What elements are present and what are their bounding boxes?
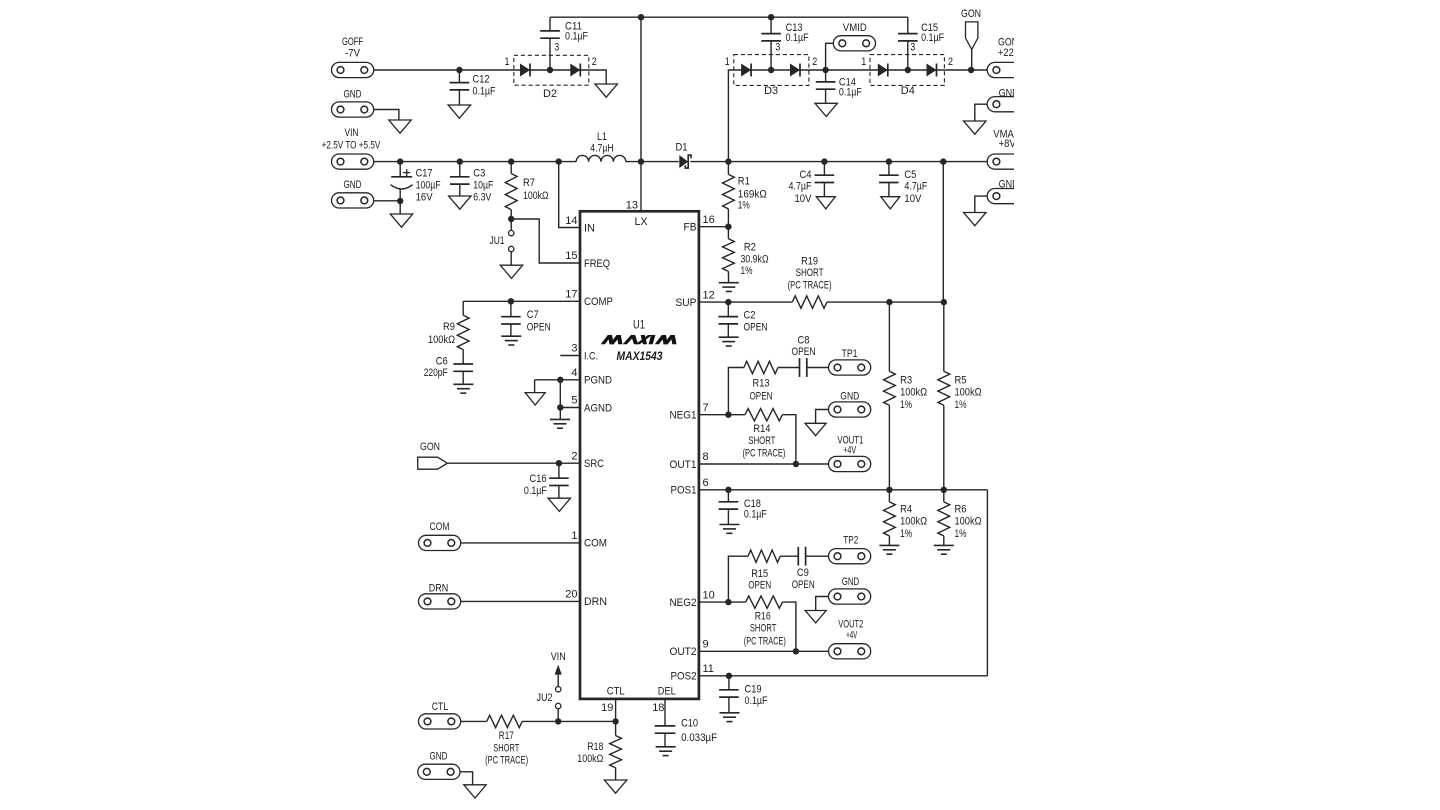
svg-text:14: 14 — [565, 215, 577, 227]
svg-text:D2: D2 — [543, 88, 557, 100]
svg-text:(PC TRACE): (PC TRACE) — [744, 635, 786, 647]
svg-text:GND: GND — [344, 179, 362, 191]
svg-text:GND: GND — [840, 390, 859, 402]
wire COMP pin — [463, 300, 580, 302]
ground right2 — [964, 213, 986, 226]
node D2 center junction — [547, 67, 553, 73]
svg-text:-7V: -7V — [345, 48, 361, 60]
svg-text:D3: D3 — [764, 85, 778, 97]
wire D3 pin1 drop to VMAIN rail — [728, 70, 733, 162]
node POS1 at R4 — [886, 487, 892, 493]
svg-text:4: 4 — [571, 367, 577, 379]
svg-text:3: 3 — [910, 42, 915, 54]
svg-text:CTL: CTL — [607, 685, 625, 697]
svg-text:R16: R16 — [755, 610, 771, 622]
op-amp U1 MAX1543 IC body — [580, 211, 699, 699]
svg-text:1%: 1% — [741, 265, 753, 277]
ground below C5 — [881, 197, 900, 209]
node AGND junction — [557, 404, 563, 410]
svg-text:OPEN: OPEN — [750, 390, 773, 402]
wire DRN pin — [461, 600, 580, 602]
svg-text:OPEN: OPEN — [744, 322, 768, 334]
svg-text:+4V: +4V — [843, 445, 856, 457]
wire CTL pad to R17 — [461, 720, 487, 722]
wire R14 to OUT1 — [782, 415, 796, 464]
node C12 junction — [456, 67, 462, 73]
ground below C16 — [548, 498, 570, 511]
node R7 bottom junction — [508, 216, 514, 222]
ground below C7 — [501, 335, 521, 337]
ground below C18 — [719, 524, 739, 526]
pad GON +22V (cut) — [987, 62, 1014, 77]
svg-text:+8V: +8V — [999, 138, 1017, 150]
wire POS1 pin to right column — [699, 489, 988, 491]
wire LX vertical to top rail and pin 13 — [640, 17, 642, 161]
svg-text:100µF: 100µF — [416, 180, 441, 192]
wire D2 internal — [514, 69, 589, 71]
svg-text:1: 1 — [505, 56, 510, 68]
capacitor C16 — [558, 463, 560, 478]
svg-text:R9: R9 — [443, 321, 455, 333]
wire C9 to TP2 — [806, 555, 829, 557]
jumper JU1 — [510, 219, 512, 230]
node NEG2 junction — [725, 599, 731, 605]
svg-text:R1: R1 — [738, 175, 750, 187]
net flag GON top — [966, 22, 978, 50]
svg-text:0.1µF: 0.1µF — [565, 31, 588, 43]
svg-text:10: 10 — [703, 589, 715, 601]
svg-text:100kΩ: 100kΩ — [955, 516, 982, 528]
pad VMID — [826, 43, 834, 70]
svg-text:SRC: SRC — [584, 458, 604, 470]
svg-text:0.033µF: 0.033µF — [681, 732, 717, 744]
capacitor C9 open — [797, 547, 799, 566]
svg-text:PGND: PGND — [584, 375, 612, 387]
wire GND pad to ground — [374, 110, 399, 121]
svg-text:5: 5 — [571, 395, 577, 407]
svg-text:12: 12 — [703, 289, 715, 301]
ground bottom-left — [464, 785, 486, 798]
wire D4 internal — [870, 69, 944, 71]
svg-text:0.1µF: 0.1µF — [745, 695, 768, 707]
svg-text:3: 3 — [571, 343, 577, 355]
svg-text:C8: C8 — [798, 335, 810, 347]
svg-text:R13: R13 — [753, 377, 770, 389]
pad GND right2 (cut) — [987, 189, 1014, 204]
resistor R18 — [615, 721, 617, 735]
svg-text:OUT1: OUT1 — [670, 459, 697, 471]
svg-text:FB: FB — [684, 222, 697, 234]
ground mid2 — [805, 611, 826, 623]
resistor R15 open — [748, 550, 780, 562]
ground right1 — [964, 121, 986, 134]
pin 3 I.C. stub — [560, 355, 580, 357]
svg-text:COM: COM — [584, 538, 607, 550]
ground below C3 — [449, 196, 471, 209]
wire R5 column upper — [943, 302, 945, 371]
wire GND bottom-left to ground — [460, 772, 473, 785]
svg-text:VIN: VIN — [345, 127, 359, 139]
resistor R14 short — [745, 409, 782, 421]
diode D4 right half — [927, 64, 937, 77]
wire PGND to AGND — [559, 380, 561, 408]
net arrow VIN — [557, 671, 559, 687]
svg-text:10V: 10V — [904, 193, 922, 205]
ground top-left — [389, 120, 411, 133]
capacitor C3 — [459, 162, 461, 177]
diode D2 left half — [520, 64, 530, 77]
svg-text:SUP: SUP — [676, 297, 697, 309]
node POS1 at R6 — [941, 487, 947, 493]
pad VOUT2 — [829, 644, 871, 659]
svg-text:L1: L1 — [597, 131, 607, 143]
svg-text:2: 2 — [948, 56, 953, 68]
wire LX top rail — [550, 16, 908, 18]
wire POS2 pin to right vertical — [699, 675, 988, 677]
svg-text:VMID: VMID — [843, 22, 867, 34]
wire NEG2 up to R15 — [728, 556, 748, 602]
pad VMAIN +8V (cut) — [987, 154, 1014, 169]
node top rail at C13 — [768, 14, 774, 20]
svg-text:C9: C9 — [797, 567, 809, 579]
svg-text:100kΩ: 100kΩ — [900, 387, 927, 399]
resistor R13 open — [744, 361, 778, 373]
svg-text:6: 6 — [703, 477, 709, 489]
ground below R6 — [934, 544, 954, 546]
node NEG1 junction — [725, 412, 731, 418]
svg-text:17: 17 — [565, 289, 577, 301]
capacitor C2 — [727, 302, 729, 317]
ground below R2 — [719, 282, 739, 284]
svg-text:SHORT: SHORT — [796, 267, 824, 279]
svg-text:100kΩ: 100kΩ — [577, 753, 603, 765]
node VMAIN at C4 — [821, 158, 827, 164]
svg-text:10V: 10V — [795, 193, 813, 205]
svg-text:DEL: DEL — [658, 685, 676, 697]
svg-text:1: 1 — [861, 56, 866, 68]
wire VIN rail — [374, 161, 577, 163]
svg-text:3: 3 — [775, 42, 780, 54]
svg-text:6.3V: 6.3V — [473, 192, 492, 204]
svg-text:C19: C19 — [745, 683, 762, 695]
svg-text:4.7µH: 4.7µH — [590, 143, 614, 155]
svg-text:D1: D1 — [676, 142, 688, 154]
wire D1 to VMAIN rail — [690, 161, 987, 163]
node SRC junction C16 — [556, 460, 562, 466]
svg-text:TP2: TP2 — [843, 535, 858, 547]
ground below C6 — [453, 383, 473, 385]
svg-text:OPEN: OPEN — [792, 579, 815, 591]
wire GND mid2 to ground — [816, 597, 829, 611]
net flag GON left arrow — [418, 457, 448, 469]
svg-text:13: 13 — [626, 200, 638, 212]
pad GND mid2 — [829, 589, 871, 604]
svg-text:DRN: DRN — [584, 596, 607, 608]
node POS1 at C18 — [725, 487, 731, 493]
svg-text:U1: U1 — [633, 317, 645, 331]
wire FB pin to R1/R2 — [699, 226, 729, 228]
svg-text:AGND: AGND — [584, 402, 612, 414]
wire GND right1 to ground — [975, 104, 987, 121]
svg-text:GON: GON — [420, 441, 440, 453]
svg-text:R19: R19 — [801, 256, 818, 268]
diode D3 left half — [741, 64, 751, 77]
wire DEL pin drop — [664, 699, 666, 726]
wire SUP pin to R19 — [699, 301, 792, 303]
wire GND mid1 to ground — [816, 410, 829, 424]
svg-text:7: 7 — [703, 402, 709, 414]
svg-text:8: 8 — [703, 451, 709, 463]
svg-text:1%: 1% — [955, 399, 967, 411]
wire CTL pin drop — [615, 699, 617, 722]
wire R7 bottom to FREQ pin — [511, 219, 580, 263]
diode pack D4 dashed box — [870, 55, 944, 86]
resistor R7 — [510, 162, 512, 174]
wire D3 internal — [734, 69, 809, 71]
wire AGND pin — [560, 407, 580, 409]
capacitor C4 — [823, 162, 825, 176]
pad VOUT1 — [829, 456, 871, 471]
svg-text:COMP: COMP — [584, 296, 613, 308]
ground mid1 — [805, 423, 826, 435]
wire R15 to C9 — [780, 555, 798, 557]
svg-text:NEG2: NEG2 — [670, 597, 697, 609]
svg-text:OPEN: OPEN — [527, 321, 551, 333]
svg-text:GOFF: GOFF — [342, 36, 363, 48]
pad GND bottom-left — [418, 764, 460, 779]
ground below C12 — [448, 105, 470, 118]
node R7 tap — [508, 158, 514, 164]
resistor R6 — [943, 490, 945, 502]
node FB junction — [725, 224, 731, 230]
svg-text:+4V: +4V — [846, 629, 857, 641]
svg-text:1%: 1% — [900, 528, 912, 540]
diode pack D2 dashed box — [514, 55, 589, 85]
svg-text:2: 2 — [592, 56, 597, 68]
wire AGND to ground — [559, 408, 561, 420]
svg-text:30.9kΩ: 30.9kΩ — [741, 253, 769, 265]
svg-text:0.1µF: 0.1µF — [473, 85, 496, 97]
svg-text:(PC TRACE): (PC TRACE) — [485, 754, 528, 766]
svg-text:SHORT: SHORT — [748, 435, 775, 447]
node C3 tap — [457, 158, 463, 164]
svg-text:9: 9 — [703, 639, 709, 651]
resistor R5 — [938, 371, 950, 405]
capacitor C12 — [458, 70, 460, 83]
resistor R3 — [884, 371, 896, 405]
capacitor C18 — [727, 490, 729, 502]
svg-text:SHORT: SHORT — [750, 623, 777, 635]
svg-text:LX: LX — [635, 216, 649, 228]
resistor R16 short — [746, 596, 783, 608]
svg-text:R18: R18 — [587, 741, 603, 753]
svg-text:POS1: POS1 — [671, 485, 697, 497]
svg-text:2: 2 — [812, 56, 817, 68]
node SUP at R3 — [886, 299, 892, 305]
ground PGND — [525, 393, 545, 405]
node PGND junction — [557, 377, 563, 383]
svg-text:(PC TRACE): (PC TRACE) — [742, 448, 785, 460]
svg-text:1: 1 — [725, 56, 730, 68]
svg-text:FREQ: FREQ — [584, 258, 610, 270]
ground below C14 — [815, 103, 837, 116]
pad TP1 — [829, 360, 871, 375]
node VMAIN at R1/D3 column — [725, 158, 731, 164]
node D3 center junction — [768, 67, 774, 73]
pad CTL — [419, 714, 461, 729]
resistor R19 short — [792, 296, 827, 308]
node D4 center junction — [905, 67, 911, 73]
ground below C4 — [816, 197, 835, 209]
pad VIN — [332, 154, 374, 169]
node CTL pin junction — [612, 718, 618, 724]
node C14/VMID junction — [822, 67, 828, 73]
ground below C17 — [390, 214, 412, 227]
svg-text:0.1µF: 0.1µF — [744, 509, 767, 521]
svg-text:MAX1543: MAX1543 — [617, 351, 664, 363]
svg-text:0.1µF: 0.1µF — [786, 32, 809, 44]
node LX junction — [638, 158, 644, 164]
svg-text:TP1: TP1 — [842, 348, 858, 360]
svg-text:I.C.: I.C. — [584, 350, 598, 362]
svg-text:R7: R7 — [523, 177, 535, 189]
wire GOFF pad to D2 — [374, 69, 514, 71]
wire GND right2 to ground — [975, 196, 987, 212]
wire GON arrow to SRC pin — [447, 462, 580, 464]
wire R3 column upper — [888, 302, 890, 371]
svg-text:VIN: VIN — [551, 651, 566, 663]
svg-text:R14: R14 — [753, 423, 770, 435]
svg-text:R15: R15 — [751, 568, 768, 580]
capacitor C8 open — [799, 358, 801, 377]
svg-text:C17: C17 — [416, 168, 433, 180]
wire D4 pin2 to GON pad — [944, 69, 987, 71]
svg-text:R4: R4 — [900, 503, 912, 515]
svg-text:R3: R3 — [900, 374, 912, 386]
svg-text:16V: 16V — [416, 192, 434, 204]
svg-text:15: 15 — [565, 250, 577, 262]
svg-text:COM: COM — [430, 521, 450, 533]
ground below R18 — [604, 780, 626, 793]
svg-text:POS2: POS2 — [671, 671, 697, 683]
ground below JU1 — [500, 265, 522, 278]
node OUT1 junction — [793, 461, 799, 467]
svg-text:C10: C10 — [681, 718, 698, 730]
node OUT2 junction — [793, 648, 799, 654]
svg-text:1: 1 — [571, 530, 577, 542]
svg-text:C12: C12 — [473, 74, 490, 86]
node COMP junction C7 — [508, 298, 514, 304]
wire VMAIN to SUP column — [942, 162, 944, 303]
svg-text:C3: C3 — [473, 168, 485, 180]
wire R19 to R3/R5 columns — [827, 301, 944, 303]
wire COM pin — [461, 542, 580, 544]
jumper JU2 — [557, 709, 559, 722]
svg-text:OPEN: OPEN — [792, 346, 816, 358]
svg-text:C2: C2 — [744, 309, 756, 321]
diode D3 right half — [790, 64, 800, 77]
svg-text:R2: R2 — [744, 242, 756, 254]
capacitor C10 — [655, 725, 676, 727]
svg-text:4.7µF: 4.7µF — [789, 180, 812, 192]
capacitor C15 — [907, 17, 909, 33]
node C17 tap — [397, 158, 403, 164]
svg-text:20: 20 — [565, 589, 577, 601]
resistor R9 — [462, 301, 464, 315]
diode D4 left half — [878, 64, 888, 77]
wire L1 to D1 — [626, 161, 679, 163]
svg-text:0.1µF: 0.1µF — [839, 87, 862, 99]
svg-text:19: 19 — [601, 702, 613, 714]
svg-text:GON: GON — [961, 8, 981, 20]
capacitor C7 — [510, 301, 512, 316]
svg-text:IN: IN — [584, 222, 595, 234]
capacitor C6 — [462, 350, 464, 364]
svg-text:3: 3 — [554, 42, 559, 54]
svg-text:100kΩ: 100kΩ — [900, 516, 927, 528]
resistor R17 short — [487, 715, 523, 727]
ground below R4 — [879, 544, 899, 546]
svg-text:100kΩ: 100kΩ — [523, 190, 549, 202]
svg-text:OUT2: OUT2 — [670, 646, 697, 658]
capacitor C14 — [825, 70, 827, 82]
diode pack D3 dashed box — [734, 55, 809, 86]
wire R3 bottom to POS1 — [888, 405, 890, 490]
svg-text:4.7µF: 4.7µF — [904, 180, 927, 192]
ground AGND — [550, 418, 570, 420]
svg-text:GND: GND — [842, 576, 860, 588]
ground below C2 — [719, 336, 739, 338]
svg-text:11: 11 — [703, 663, 714, 675]
svg-text:JU2: JU2 — [537, 692, 553, 704]
ground below D2 — [595, 84, 617, 97]
resistor R2 — [723, 239, 735, 271]
wire OUT2 pin — [699, 650, 829, 652]
pad GND right1 (cut) — [987, 97, 1014, 112]
wire R5 bottom to POS1 — [943, 405, 945, 490]
node IN tap — [556, 158, 562, 164]
node VMAIN at R5 column — [940, 158, 946, 164]
wire NEG1 pin — [699, 414, 745, 416]
capacitor C17 electrolytic — [399, 162, 401, 177]
capacitor C5 — [888, 162, 890, 176]
ground below C10 — [656, 746, 676, 748]
node SUP at R5 — [941, 299, 947, 305]
wire R17 to CTL pin junction — [522, 720, 615, 722]
svg-text:100kΩ: 100kΩ — [955, 387, 982, 399]
diode D1 schottky — [679, 155, 688, 168]
node GON junction — [968, 67, 974, 73]
svg-text:C16: C16 — [530, 473, 547, 485]
svg-text:DRN: DRN — [429, 583, 449, 595]
svg-text:C7: C7 — [527, 309, 539, 321]
svg-text:100kΩ: 100kΩ — [428, 334, 455, 346]
svg-text:16: 16 — [703, 214, 715, 226]
pad GND mid1 — [829, 402, 871, 417]
svg-text:R17: R17 — [499, 730, 514, 742]
wire R16 to OUT2 — [782, 602, 796, 651]
pad GND top-left — [332, 102, 374, 117]
wire C8 to TP1 — [807, 367, 829, 369]
node top rail at LX column — [638, 14, 644, 20]
node VMAIN at C5 — [886, 158, 892, 164]
svg-text:D4: D4 — [901, 85, 915, 97]
wire NEG1 up to R13 — [728, 368, 744, 415]
svg-text:JU1: JU1 — [490, 235, 505, 247]
node JU2 junction — [555, 718, 561, 724]
svg-text:1%: 1% — [900, 399, 912, 411]
svg-text:1%: 1% — [738, 200, 750, 212]
